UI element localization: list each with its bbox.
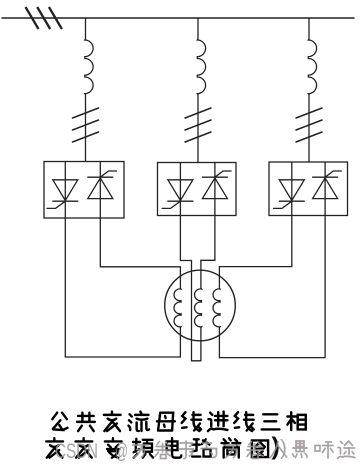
thyristor V2a gate xyxy=(162,201,180,208)
thyristor V2b gate xyxy=(215,171,231,177)
bus bar (3-phase AC supply line) xyxy=(2,17,354,19)
wire L3 to ticks xyxy=(308,94,310,162)
thyristor V2b cathode bar + triangle xyxy=(202,177,227,198)
winding W2 (middle phase) xyxy=(195,260,202,361)
winding W3 (right phase) xyxy=(213,267,220,358)
watermark: CSDN @nickname xyxy=(55,437,355,464)
thyristor V3b line xyxy=(324,162,326,216)
motor stator circle M xyxy=(165,270,236,341)
converter box U1 xyxy=(44,162,124,219)
converter box U3 xyxy=(269,162,348,216)
inductor L1 xyxy=(85,39,93,95)
caption line 1: 公共交流母线进线三相 xyxy=(52,412,305,431)
3-phase tick marks branch 2 xyxy=(185,108,211,142)
thyristor V3a triangle + cathode bar xyxy=(279,180,304,201)
winding W1 (left phase) xyxy=(174,267,181,357)
wire U2 left pin through motor to W2 bottom xyxy=(180,216,201,361)
wire U1 left pin to winding W1 bottom xyxy=(65,218,180,357)
wire L1 to ticks xyxy=(85,94,87,162)
thyristor V3a gate xyxy=(274,201,292,208)
caption line 2: 交交变频电路简图) xyxy=(46,433,280,461)
3-phase tick marks branch 1 xyxy=(73,108,99,142)
thyristor V1b line (right, conducts up) xyxy=(99,162,101,219)
inductor L2 xyxy=(197,39,205,95)
thyristor V2a triangle + cathode bar xyxy=(168,180,193,201)
branch 3 drop wire xyxy=(308,18,310,39)
branch 1 drop wire xyxy=(85,18,87,39)
wire U2 right pin to winding W2 top xyxy=(201,216,215,261)
thyristor V3b cathode bar + triangle xyxy=(313,177,338,198)
wire U3 left pin to winding W3 top xyxy=(219,216,291,267)
converter box U2 xyxy=(158,163,237,216)
thyristor V1a gate xyxy=(47,201,65,208)
thyristor V2a anode line xyxy=(179,163,181,216)
thyristor V2b line xyxy=(214,163,216,216)
wire U1 right pin to winding W1 top xyxy=(100,218,180,267)
3-phase tick marks branch 3 xyxy=(296,108,322,142)
thyristor V1a triangle + cathode bar xyxy=(53,180,78,201)
inductor L3 xyxy=(308,39,316,95)
svg-text:CSDN: CSDN xyxy=(55,439,98,463)
thyristor V1b cathode bar + triangle xyxy=(88,177,113,198)
thyristor V3b gate xyxy=(325,171,341,177)
thyristor V3a anode line xyxy=(291,162,293,216)
thyristor V1a anode line (left, conducts down) xyxy=(64,162,66,219)
bus hatch marks (supply slashes) xyxy=(26,7,62,29)
svg-text:@: @ xyxy=(115,440,128,463)
wire U3 right pin to winding W3 bottom xyxy=(219,216,325,358)
svg-text:): ) xyxy=(280,437,287,460)
branch 2 drop wire xyxy=(197,18,199,39)
thyristor V1b gate xyxy=(100,171,116,177)
wire L2 to ticks xyxy=(197,94,199,163)
